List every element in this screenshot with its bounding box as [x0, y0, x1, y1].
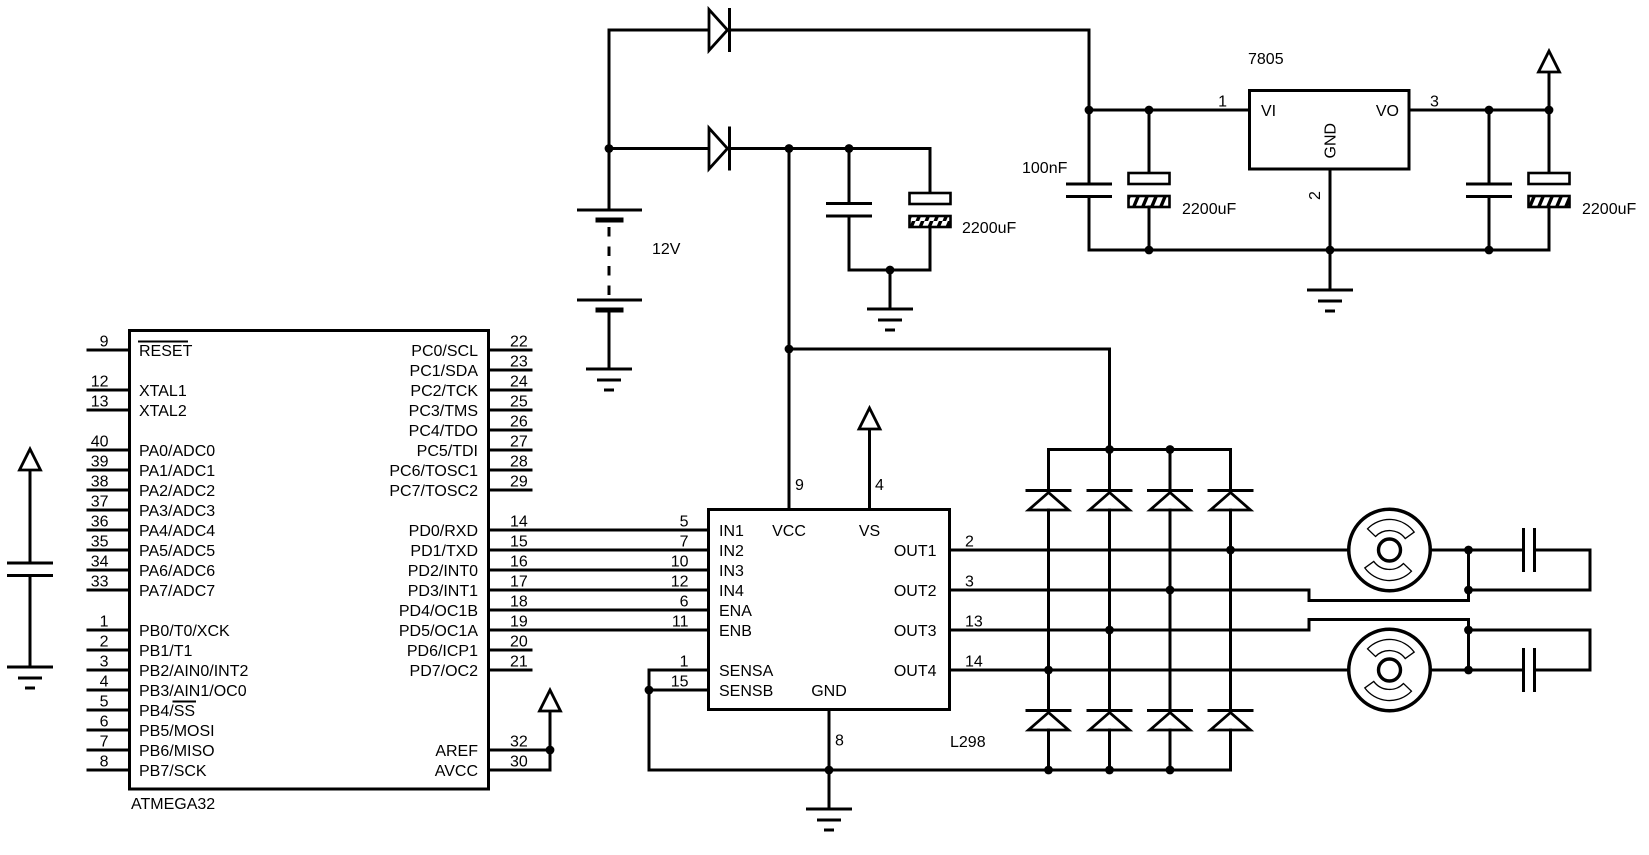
- svg-text:9: 9: [795, 477, 804, 494]
- node: [785, 144, 794, 153]
- svg-text:PA3/ADC3: PA3/ADC3: [139, 503, 215, 520]
- capacitor C2 lead: [929, 149, 932, 194]
- svg-text:11: 11: [672, 614, 689, 631]
- svg-text:39: 39: [91, 454, 109, 471]
- pin 22 PC0/SCL: [411, 334, 531, 361]
- wire motor M1 right vertical: [1467, 550, 1470, 601]
- svg-text:12: 12: [91, 374, 109, 391]
- svg-text:17: 17: [510, 574, 528, 591]
- svg-text:15: 15: [671, 674, 689, 691]
- wire snubber bottom right: [1536, 669, 1590, 672]
- node: [1145, 106, 1154, 115]
- svg-text:38: 38: [91, 474, 109, 491]
- pin 2 PB1/T1: [88, 634, 192, 661]
- node: [645, 686, 654, 695]
- ground filter: [869, 309, 912, 330]
- wire SENSB: [649, 689, 709, 692]
- svg-text:PC3/TMS: PC3/TMS: [409, 403, 478, 420]
- motor M2: [1349, 629, 1431, 711]
- svg-text:AREF: AREF: [435, 743, 478, 760]
- svg-text:8: 8: [100, 754, 109, 771]
- pin 21 PD7/OC2: [410, 654, 531, 681]
- svg-text:PC6/TOSC1: PC6/TOSC1: [389, 463, 478, 480]
- svg-text:ENA: ENA: [719, 603, 752, 620]
- node OUT4: [1044, 666, 1053, 675]
- svg-text:PD0/RXD: PD0/RXD: [409, 523, 478, 540]
- svg-text:19: 19: [510, 614, 528, 631]
- svg-text:L298: L298: [950, 734, 986, 751]
- wire regulator output: [1409, 109, 1549, 112]
- node battery junction: [605, 144, 614, 153]
- ground regulator: [1309, 290, 1352, 311]
- svg-text:4: 4: [100, 674, 109, 691]
- svg-text:OUT4: OUT4: [894, 663, 937, 680]
- diode D8: [1088, 711, 1131, 731]
- svg-text:13: 13: [91, 394, 109, 411]
- wire column 1 top stub: [1047, 450, 1050, 491]
- node: [1464, 546, 1473, 555]
- node: [886, 266, 895, 275]
- node OUT2: [1166, 586, 1175, 595]
- wire regulator ground pin: [1329, 169, 1332, 250]
- svg-text:OUT3: OUT3: [894, 623, 937, 640]
- svg-text:7: 7: [100, 734, 109, 751]
- node: [1545, 106, 1554, 115]
- svg-text:IN2: IN2: [719, 543, 744, 560]
- capacitor C1: [828, 204, 871, 217]
- pin 13 XTAL2: [88, 394, 187, 421]
- node: [1166, 766, 1175, 775]
- svg-text:23: 23: [510, 354, 528, 371]
- svg-text:18: 18: [510, 594, 528, 611]
- pin 9 RESET: [88, 334, 193, 361]
- svg-text:PB0/T0/XCK: PB0/T0/XCK: [139, 623, 230, 640]
- pin 16 PD2/INT0 / wire to L298: [408, 554, 709, 581]
- svg-text:GND: GND: [1323, 123, 1340, 159]
- wire OUT3 offset run: [1309, 618, 1469, 621]
- node: [1105, 445, 1114, 454]
- pin 17 PD3/INT1 / wire to L298: [408, 574, 709, 601]
- ground battery: [588, 369, 631, 390]
- svg-text:RESET: RESET: [139, 343, 193, 360]
- svg-text:ENB: ENB: [719, 623, 752, 640]
- svg-text:PD5/OC1A: PD5/OC1A: [399, 623, 478, 640]
- svg-text:PD6/ICP1: PD6/ICP1: [407, 643, 478, 660]
- node: [1464, 586, 1473, 595]
- svg-text:25: 25: [510, 394, 528, 411]
- svg-text:GND: GND: [811, 683, 847, 700]
- node: [1464, 666, 1473, 675]
- pin 27 PC5/TDI: [417, 434, 531, 461]
- svg-text:1: 1: [680, 654, 689, 671]
- wire column 4 middle: [1229, 510, 1232, 711]
- svg-text:PD2/INT0: PD2/INT0: [408, 563, 478, 580]
- wire motor M2 right vertical: [1467, 620, 1470, 671]
- ground L298: [808, 809, 851, 830]
- node: [1485, 246, 1494, 255]
- svg-text:22: 22: [510, 334, 528, 351]
- wire: [1329, 250, 1332, 290]
- svg-text:14: 14: [965, 654, 983, 671]
- node: [825, 766, 834, 775]
- pin 40 PA0/ADC0: [88, 434, 215, 461]
- wire: [29, 576, 32, 667]
- node: [1105, 766, 1114, 775]
- wire diode top bus: [1049, 448, 1231, 451]
- svg-text:1: 1: [100, 614, 109, 631]
- pin 32 AREF: [435, 734, 550, 761]
- svg-text:SENSB: SENSB: [719, 683, 773, 700]
- wire mid rail left segment: [609, 147, 709, 150]
- wire battery positive vertical: [608, 30, 611, 210]
- svg-text:PC5/TDI: PC5/TDI: [417, 443, 478, 460]
- pin 19 PD5/OC1A / wire to L298: [399, 614, 709, 641]
- svg-text:32: 32: [510, 734, 528, 751]
- wire: [929, 227, 932, 270]
- diode D3: [1027, 491, 1070, 511]
- node: [845, 144, 854, 153]
- node: [1464, 626, 1473, 635]
- pin 38 PA2/ADC2: [88, 474, 215, 501]
- diode D6: [1209, 491, 1252, 511]
- svg-text:XTAL2: XTAL2: [139, 403, 187, 420]
- wire snubber right vertical: [1589, 550, 1592, 590]
- pin 37 PA3/ADC3: [88, 494, 215, 521]
- capacitor C2 2200uF: [910, 193, 951, 227]
- svg-text:2200uF: 2200uF: [1182, 201, 1236, 218]
- capacitor C4 lead: [1148, 110, 1151, 173]
- svg-text:2200uF: 2200uF: [962, 220, 1016, 237]
- diode D5: [1149, 491, 1192, 511]
- pin 8 PB7/SCK: [88, 754, 207, 781]
- svg-text:PB7/SCK: PB7/SCK: [139, 763, 207, 780]
- svg-text:2: 2: [965, 534, 974, 551]
- wire down to regulator input: [1088, 30, 1091, 110]
- ground left: [9, 667, 52, 688]
- wire top rail right segment: [729, 29, 1089, 32]
- svg-text:29: 29: [510, 474, 528, 491]
- svg-text:ATMEGA32: ATMEGA32: [131, 796, 215, 813]
- wire 5V flag lead: [1548, 64, 1551, 110]
- capacitor C6 2200uF: [1529, 173, 1570, 207]
- power flag: [20, 449, 41, 470]
- svg-text:2: 2: [100, 634, 109, 651]
- pin 1 PB0/T0/XCK: [88, 614, 230, 641]
- capacitor C1 lead: [848, 149, 851, 204]
- svg-text:100nF: 100nF: [1022, 160, 1068, 177]
- svg-text:IN3: IN3: [719, 563, 744, 580]
- pin 7 PB6/MISO: [88, 734, 215, 761]
- pin 29 PC7/TOSC2: [389, 474, 531, 501]
- svg-text:PB6/MISO: PB6/MISO: [139, 743, 215, 760]
- svg-text:35: 35: [91, 534, 109, 551]
- capacitor C7: [9, 563, 52, 576]
- diode D2: [709, 128, 730, 169]
- svg-text:PC4/TDO: PC4/TDO: [409, 423, 478, 440]
- svg-text:40: 40: [91, 434, 109, 451]
- svg-text:PC7/TOSC2: PC7/TOSC2: [389, 483, 478, 500]
- pin 39 PA1/ADC1: [88, 454, 215, 481]
- wire OUT4 to motor M2: [950, 669, 1524, 672]
- wire column 4 top stub: [1229, 450, 1232, 491]
- wire VCC feed vertical: [788, 149, 791, 510]
- node OUT1: [1226, 546, 1235, 555]
- node: [1166, 445, 1175, 454]
- svg-text:5: 5: [100, 694, 109, 711]
- pin 28 PC6/TOSC1: [389, 454, 531, 481]
- wire column 2 top stub: [1108, 450, 1111, 491]
- svg-text:VI: VI: [1261, 103, 1276, 120]
- pin 12 XTAL1: [88, 374, 187, 401]
- wire VS branch horizontal: [789, 348, 1110, 351]
- svg-text:7805: 7805: [1248, 51, 1284, 68]
- svg-text:OUT1: OUT1: [894, 543, 937, 560]
- wire mid rail right segment: [729, 147, 930, 150]
- wire cap pair bottom: [849, 269, 930, 272]
- svg-text:16: 16: [510, 554, 528, 571]
- svg-text:PD1/TXD: PD1/TXD: [410, 543, 478, 560]
- svg-text:9: 9: [100, 334, 109, 351]
- wire column 3 bottom stub: [1169, 730, 1172, 770]
- diode D9: [1149, 711, 1192, 731]
- wire: [1548, 207, 1551, 250]
- svg-text:12V: 12V: [652, 241, 681, 258]
- svg-text:PB2/AIN0/INT2: PB2/AIN0/INT2: [139, 663, 248, 680]
- IC U1 ATMEGA32: [130, 331, 489, 790]
- svg-text:12: 12: [671, 574, 689, 591]
- wire flag to capacitor: [29, 462, 32, 563]
- pin 24 PC2/TCK: [410, 374, 531, 401]
- wire OUT3: [950, 629, 1310, 632]
- svg-text:PA5/ADC5: PA5/ADC5: [139, 543, 215, 560]
- svg-text:SENSA: SENSA: [719, 663, 774, 680]
- wire ground bus bottom: [649, 769, 1231, 772]
- wire column 2 middle: [1108, 510, 1111, 711]
- capacitor C4 2200uF: [1129, 173, 1170, 207]
- svg-text:20: 20: [510, 634, 528, 651]
- svg-text:30: 30: [510, 754, 528, 771]
- svg-text:OUT2: OUT2: [894, 583, 937, 600]
- svg-text:36: 36: [91, 514, 109, 531]
- wire: [1088, 197, 1091, 251]
- svg-text:5: 5: [680, 514, 689, 531]
- wire column 3 middle: [1169, 510, 1172, 711]
- wire OUT1 to motor M1: [950, 549, 1524, 552]
- diode D1: [709, 10, 730, 51]
- battery BT1 12V: [579, 210, 641, 310]
- wire snubber top: [1469, 629, 1591, 632]
- wire GND pin 8: [828, 710, 831, 771]
- svg-text:14: 14: [510, 514, 528, 531]
- svg-text:PD3/INT1: PD3/INT1: [408, 583, 478, 600]
- svg-text:PB5/MOSI: PB5/MOSI: [139, 723, 215, 740]
- wire: [1488, 197, 1491, 251]
- svg-text:PC0/SCL: PC0/SCL: [411, 343, 478, 360]
- wire snubber top right: [1536, 549, 1590, 552]
- motor M1: [1349, 509, 1431, 591]
- svg-text:13: 13: [965, 614, 983, 631]
- svg-text:PB3/AIN1/OC0: PB3/AIN1/OC0: [139, 683, 247, 700]
- svg-text:XTAL1: XTAL1: [139, 383, 187, 400]
- pin 5 PB4/SS: [88, 694, 195, 721]
- svg-text:VS: VS: [859, 523, 880, 540]
- svg-text:2: 2: [1307, 191, 1324, 200]
- capacitor C8: [1524, 530, 1535, 571]
- wire OUT2: [950, 589, 1310, 592]
- pin 23 PC1/SDA: [410, 354, 531, 381]
- wire battery negative lead: [608, 312, 611, 369]
- wire: [828, 770, 831, 809]
- svg-text:6: 6: [100, 714, 109, 731]
- wire column 2 bottom stub: [1108, 730, 1111, 770]
- wire OUT2 jog: [1308, 590, 1311, 601]
- svg-text:IN1: IN1: [719, 523, 744, 540]
- wire column 1 middle: [1047, 510, 1050, 711]
- pin 35 PA5/ADC5: [88, 534, 215, 561]
- power flag VS: [859, 408, 880, 429]
- wire column 1 bottom stub: [1047, 730, 1050, 770]
- svg-text:PD4/OC1B: PD4/OC1B: [399, 603, 478, 620]
- wire column 3 top stub: [1169, 450, 1172, 491]
- svg-text:PA7/ADC7: PA7/ADC7: [139, 583, 215, 600]
- svg-text:34: 34: [91, 554, 109, 571]
- svg-text:VO: VO: [1376, 103, 1399, 120]
- svg-text:IN4: IN4: [719, 583, 744, 600]
- diode D7: [1027, 711, 1070, 731]
- svg-text:10: 10: [671, 554, 689, 571]
- node: [546, 746, 555, 755]
- wire AVCC to AREF riser: [549, 703, 552, 770]
- capacitor C3 lead: [1088, 110, 1091, 184]
- pin 25 PC3/TMS: [409, 394, 531, 421]
- node: [1044, 766, 1053, 775]
- svg-text:15: 15: [510, 534, 528, 551]
- wire sense to ground bus: [648, 670, 651, 770]
- capacitor C6 lead: [1548, 110, 1551, 173]
- wire top rail left segment: [609, 29, 709, 32]
- regulator U2 7805: [1250, 91, 1410, 170]
- svg-text:28: 28: [510, 454, 528, 471]
- power flag +5V: [1539, 51, 1560, 72]
- pin 15 PD1/TXD / wire to L298: [410, 534, 708, 561]
- svg-text:PC1/SDA: PC1/SDA: [410, 363, 479, 380]
- svg-text:21: 21: [510, 654, 528, 671]
- capacitor C9: [1524, 650, 1535, 691]
- node: [1485, 106, 1494, 115]
- svg-text:6: 6: [680, 594, 689, 611]
- wire VS pin: [868, 421, 871, 510]
- diode D4: [1088, 491, 1131, 511]
- wire VS branch vertical: [1108, 349, 1111, 450]
- wire ground bus: [1089, 249, 1549, 252]
- svg-text:PA6/ADC6: PA6/ADC6: [139, 563, 215, 580]
- svg-text:PB1/T1: PB1/T1: [139, 643, 192, 660]
- svg-text:8: 8: [835, 733, 844, 750]
- svg-text:26: 26: [510, 414, 528, 431]
- node: [1085, 106, 1094, 115]
- pin 18 PD4/OC1B / wire to L298: [399, 594, 709, 621]
- svg-text:37: 37: [91, 494, 109, 511]
- svg-text:PA0/ADC0: PA0/ADC0: [139, 443, 215, 460]
- capacitor C5: [1468, 184, 1511, 197]
- svg-text:3: 3: [100, 654, 109, 671]
- svg-text:24: 24: [510, 374, 528, 391]
- pin 14 PD0/RXD / wire to L298: [409, 514, 709, 541]
- capacitor C5 lead: [1488, 110, 1491, 184]
- diode D10: [1209, 711, 1252, 731]
- svg-text:PD7/OC2: PD7/OC2: [410, 663, 479, 680]
- wire: [1148, 207, 1151, 250]
- svg-text:2200uF: 2200uF: [1582, 201, 1636, 218]
- svg-text:3: 3: [1430, 94, 1439, 111]
- pin 4 PB3/AIN1/OC0: [88, 674, 247, 701]
- capacitor C3 100nF: [1068, 184, 1111, 197]
- svg-text:7: 7: [680, 534, 689, 551]
- pin 3 PB2/AIN0/INT2: [88, 654, 248, 681]
- svg-text:PC2/TCK: PC2/TCK: [410, 383, 478, 400]
- wire regulator input: [1089, 109, 1250, 112]
- wire: [848, 216, 851, 270]
- svg-text:33: 33: [91, 574, 109, 591]
- pin 36 PA4/ADC4: [88, 514, 215, 541]
- pin 34 PA6/ADC6: [88, 554, 215, 581]
- wire SENSA: [649, 669, 709, 672]
- svg-text:PB4/SS: PB4/SS: [139, 703, 195, 720]
- wire OUT2 offset run: [1309, 599, 1469, 602]
- svg-text:PA1/ADC1: PA1/ADC1: [139, 463, 215, 480]
- IC U3 L298: [709, 510, 950, 710]
- pin 6 PB5/MOSI: [88, 714, 215, 741]
- wire snubber right vertical: [1589, 630, 1592, 670]
- svg-text:4: 4: [875, 477, 884, 494]
- pin 26 PC4/TDO: [409, 414, 531, 441]
- pin 33 PA7/ADC7: [88, 574, 215, 601]
- node OUT3: [1105, 626, 1114, 635]
- node: [1145, 246, 1154, 255]
- svg-text:PA4/ADC4: PA4/ADC4: [139, 523, 215, 540]
- svg-text:3: 3: [965, 574, 974, 591]
- power flag AVCC: [540, 690, 561, 711]
- node: [1326, 246, 1335, 255]
- svg-text:AVCC: AVCC: [435, 763, 478, 780]
- svg-text:PA2/ADC2: PA2/ADC2: [139, 483, 215, 500]
- wire column 4 bottom stub: [1229, 730, 1232, 770]
- svg-text:27: 27: [510, 434, 528, 451]
- wire snubber bottom: [1469, 589, 1591, 592]
- svg-text:VCC: VCC: [772, 523, 806, 540]
- node: [785, 345, 794, 354]
- wire OUT3 jog: [1308, 620, 1311, 631]
- pin 20 PD6/ICP1: [407, 634, 531, 661]
- svg-text:1: 1: [1218, 94, 1227, 111]
- wire to ground: [889, 270, 892, 309]
- pin 30 AVCC: [435, 754, 550, 781]
